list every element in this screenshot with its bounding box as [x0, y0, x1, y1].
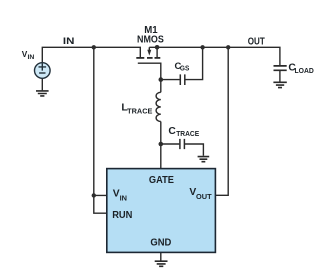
node gate junction dot: [159, 77, 164, 82]
svg-text:GATE: GATE: [149, 175, 174, 186]
wire: C_LOAD to ground: [279, 71, 281, 82]
wire: Vin source to ground: [41, 78, 43, 90]
capacitor C_TRACE: right wire down to ground: [185, 144, 204, 156]
svg-text:IN: IN: [120, 193, 127, 202]
node CGS-rail junction dot: [200, 45, 204, 49]
transistor M1 NMOS: gate plate and gate lead down: [138, 63, 161, 79]
svg-text:LOAD: LOAD: [295, 66, 314, 75]
svg-text:C: C: [168, 126, 176, 137]
wire: Vin source to IN rail (left top rail): [42, 47, 140, 63]
node VIN/RUN branch junction dot: [92, 193, 96, 197]
transistor M1 NMOS: body tie vertical: [148, 47, 150, 50]
svg-text:NMOS: NMOS: [137, 34, 164, 45]
ground (C_LOAD): [273, 82, 286, 87]
svg-text:GS: GS: [180, 66, 190, 73]
svg-text:IN: IN: [28, 54, 35, 61]
capacitor C_GS: left wire: [161, 79, 180, 81]
svg-text:IN: IN: [63, 36, 75, 47]
node OUT junction dot: [226, 45, 230, 49]
transistor M1 NMOS: channel bar 3: [155, 57, 161, 59]
capacitor C_GS: right wire up to rail: [185, 47, 203, 79]
svg-text:TRACE: TRACE: [127, 107, 152, 116]
svg-text:TRACE: TRACE: [176, 129, 199, 138]
inductor L_TRACE coil: [156, 92, 161, 121]
capacitor C_LOAD: plates: [274, 66, 287, 70]
ground (IC GND): [155, 261, 168, 266]
wire: GND pin to ground: [160, 252, 162, 261]
transistor M1 NMOS: channel bar 2: [147, 57, 153, 59]
wire: OUT node feedback down to VOUT pin: [216, 47, 229, 195]
transistor M1 NMOS: channel bar 1: [136, 57, 144, 59]
transistor M1 NMOS: drain stub: [156, 47, 158, 57]
capacitor C_TRACE: left wire: [161, 143, 180, 145]
ground (V_IN source): [36, 91, 49, 96]
svg-text:GND: GND: [150, 238, 171, 249]
node IN junction dot: [92, 45, 96, 49]
capacitor C_GS: plates: [180, 74, 185, 85]
capacitor C_TRACE: plates: [180, 139, 185, 149]
wire: drain-side top rail to CLOAD corner: [149, 47, 280, 65]
wire: branch down to RUN pin: [94, 195, 107, 213]
voltage source minus sign: [39, 72, 45, 74]
voltage source V_IN circle: [35, 63, 51, 79]
transistor M1 NMOS: body arrow: [147, 50, 151, 56]
voltage source plus sign: [39, 63, 47, 70]
ground (C_TRACE): [198, 157, 210, 162]
node CTRACE junction dot: [159, 142, 164, 147]
IC block (blue box): [107, 169, 216, 253]
svg-text:OUT: OUT: [196, 192, 212, 201]
svg-text:OUT: OUT: [248, 37, 265, 48]
svg-text:RUN: RUN: [112, 210, 132, 221]
wire: gate node down to inductor: [160, 80, 162, 93]
wire: inductor to CTRACE node to GATE pin: [160, 122, 162, 170]
node drain junction dot: [155, 45, 160, 50]
wire: left vertical from IN node down to VIN pin: [94, 47, 107, 195]
